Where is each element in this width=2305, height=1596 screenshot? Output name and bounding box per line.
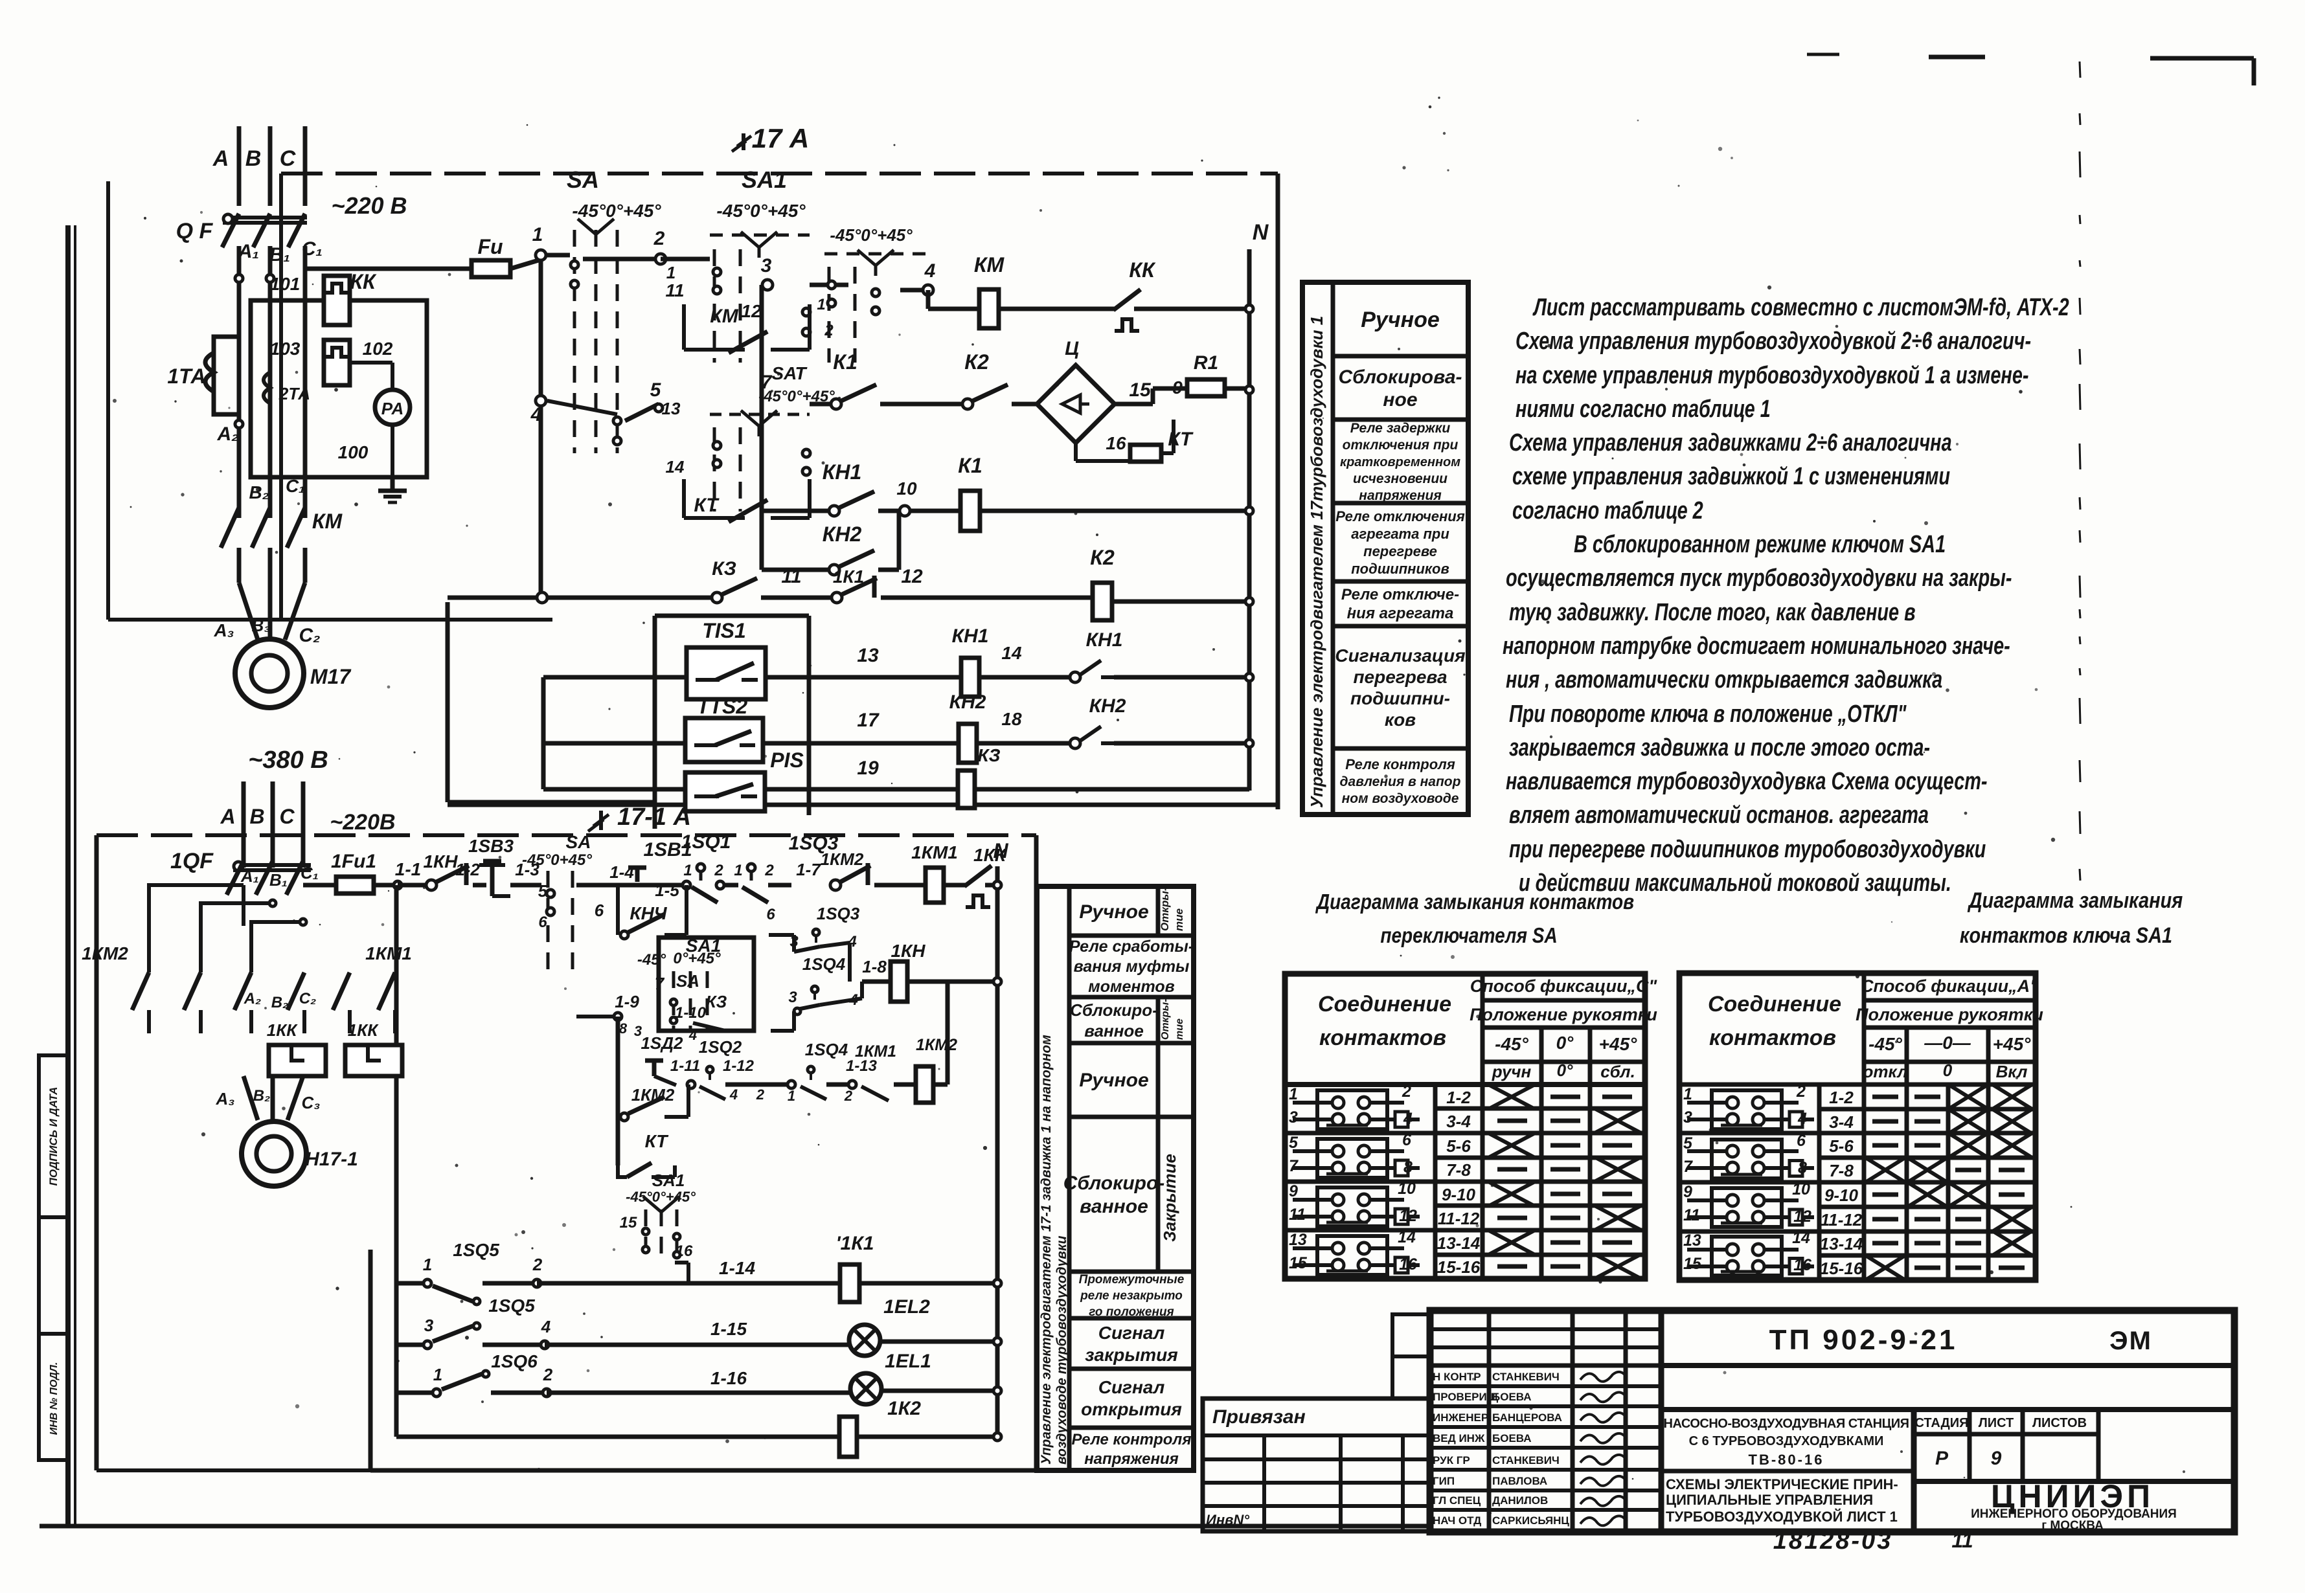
- svg-text:100: 100: [338, 442, 369, 462]
- svg-text:1К2: 1К2: [887, 1398, 921, 1419]
- svg-text:Способ фиксации„С": Способ фиксации„С": [1470, 976, 1658, 996]
- svg-text:17: 17: [857, 710, 880, 731]
- svg-text:17-1 А: 17-1 А: [617, 804, 691, 831]
- svg-text:ПОДПИСЬ И ДАТА: ПОДПИСЬ И ДАТА: [47, 1087, 60, 1186]
- svg-text:SА: SА: [566, 832, 591, 852]
- svg-text:Реле задержки: Реле задержки: [1350, 421, 1451, 436]
- svg-text:Привязан: Привязан: [1212, 1406, 1306, 1428]
- svg-text:-45°0°+45°: -45°0°+45°: [716, 201, 806, 221]
- svg-text:1КМ1: 1КМ1: [855, 1042, 896, 1061]
- svg-text:1: 1: [817, 296, 825, 313]
- svg-text:КК: КК: [350, 270, 377, 293]
- svg-text:1SQ5: 1SQ5: [488, 1296, 535, 1316]
- svg-text:Q F: Q F: [176, 219, 214, 243]
- svg-text:4: 4: [729, 1086, 738, 1103]
- svg-text:6: 6: [538, 914, 547, 931]
- svg-text:8: 8: [619, 1020, 628, 1037]
- svg-text:СХЕМЫ ЭЛЕКТРИЧЕСКИЕ ПРИН-: СХЕМЫ ЭЛЕКТРИЧЕСКИЕ ПРИН-: [1666, 1476, 1898, 1492]
- svg-text:переключателя SА: переключателя SА: [1380, 924, 1557, 948]
- svg-text:1Fu1: 1Fu1: [331, 851, 376, 872]
- svg-text:Положение рукоятки: Положение рукоятки: [1856, 1005, 2043, 1024]
- svg-text:3: 3: [424, 1316, 434, 1335]
- svg-text:1QF: 1QF: [170, 849, 214, 873]
- svg-text:1SВ3: 1SВ3: [468, 836, 514, 856]
- svg-text:0°+45°: 0°+45°: [673, 950, 721, 967]
- svg-text:-45°0°+45°: -45°0°+45°: [572, 201, 661, 221]
- svg-text:перегрева: перегрева: [1353, 667, 1447, 687]
- svg-text:С₂: С₂: [299, 625, 320, 646]
- svg-text:ПАВЛОВА: ПАВЛОВА: [1492, 1475, 1547, 1487]
- svg-text:+45°: +45°: [1599, 1034, 1637, 1054]
- svg-text:тую задвижку. После того, к: тую задвижку. После того, как давление в: [1509, 598, 1916, 626]
- svg-text:8: 8: [1798, 1159, 1807, 1177]
- svg-text:ЛИСТОВ: ЛИСТОВ: [2032, 1416, 2087, 1430]
- svg-text:ручн: ручн: [1492, 1062, 1532, 1081]
- svg-text:1: 1: [1289, 1085, 1298, 1103]
- svg-text:навливается турбовоздуходувка: навливается турбовоздуходувка Схема осущ…: [1506, 767, 1988, 795]
- svg-text:ванное: ванное: [1080, 1196, 1148, 1217]
- svg-text:подшипников: подшипников: [1351, 561, 1449, 577]
- svg-text:ниями согласно таблице 1: ниями согласно таблице 1: [1516, 395, 1771, 423]
- svg-text:Управление электродвигателем: Управление электродвигателем 17-1 задвиж…: [1039, 1035, 1054, 1465]
- svg-text:подшипни-: подшипни-: [1350, 688, 1450, 708]
- svg-text:16: 16: [1106, 433, 1126, 453]
- svg-text:3-4: 3-4: [1829, 1112, 1854, 1132]
- svg-text:Ручное: Ручное: [1079, 901, 1148, 923]
- svg-text:напорном патрубке достигает: напорном патрубке достигает номинального…: [1503, 632, 2010, 660]
- svg-text:5: 5: [1289, 1134, 1299, 1152]
- svg-text:А₂: А₂: [244, 990, 261, 1007]
- svg-text:Схема управления турбовоздуход: Схема управления турбовоздуходувкой 2÷6 …: [1516, 327, 2031, 355]
- svg-text:КН2: КН2: [823, 523, 862, 546]
- svg-text:САРКИСЬЯНЦ: САРКИСЬЯНЦ: [1492, 1514, 1569, 1527]
- svg-text:3-4: 3-4: [1446, 1112, 1471, 1131]
- svg-text:КЗ: КЗ: [706, 992, 727, 1011]
- svg-text:18128-03: 18128-03: [1773, 1527, 1893, 1555]
- svg-text:С₂: С₂: [299, 990, 316, 1007]
- svg-text:исчезновении: исчезновении: [1353, 471, 1448, 486]
- svg-text:РУК ГР: РУК ГР: [1433, 1454, 1470, 1467]
- svg-text:~380 В: ~380 В: [248, 747, 328, 774]
- svg-text:12: 12: [1399, 1207, 1417, 1225]
- svg-text:на схеме управления турбовозду: на схеме управления турбовоздуходувкой 1…: [1516, 361, 2029, 389]
- svg-text:КМ: КМ: [710, 306, 738, 327]
- svg-text:Положение рукоятки: Положение рукоятки: [1470, 1005, 1657, 1024]
- svg-text:1-7: 1-7: [796, 860, 821, 879]
- svg-text:тие: тие: [1173, 908, 1185, 931]
- svg-text:СТАДИЯ: СТАДИЯ: [1914, 1416, 1968, 1430]
- svg-text:Сблокиро-: Сблокиро-: [1070, 1000, 1158, 1020]
- svg-text:13-14: 13-14: [1437, 1233, 1481, 1253]
- svg-text:СТАНКЕВИЧ: СТАНКЕВИЧ: [1492, 1454, 1560, 1467]
- svg-text:11-12: 11-12: [1821, 1210, 1863, 1230]
- svg-text:КН2: КН2: [949, 691, 986, 713]
- svg-text:5: 5: [650, 379, 662, 401]
- svg-text:реле незакрыто: реле незакрыто: [1080, 1289, 1183, 1303]
- svg-text:9-10: 9-10: [1442, 1185, 1476, 1204]
- svg-text:4: 4: [924, 260, 936, 282]
- svg-text:В₂: В₂: [249, 482, 269, 502]
- svg-text:9: 9: [1683, 1183, 1692, 1201]
- svg-text:ТП 902-9-21: ТП 902-9-21: [1769, 1324, 1958, 1356]
- svg-text:кратковременном: кратковременном: [1340, 455, 1460, 469]
- svg-text:-45°: -45°: [637, 951, 666, 969]
- svg-text:В сблокированном режиме клю: В сблокированном режиме ключом SА1: [1574, 530, 1946, 558]
- svg-text:9: 9: [1991, 1448, 2002, 1469]
- svg-text:SА: SА: [676, 971, 699, 991]
- svg-text:1КК: 1КК: [973, 845, 1007, 865]
- svg-text:1: 1: [683, 862, 692, 879]
- svg-text:К1: К1: [833, 350, 857, 374]
- svg-text:Откры-: Откры-: [1159, 887, 1171, 931]
- svg-text:Ц: Ц: [1065, 338, 1079, 359]
- svg-text:Реле отключения: Реле отключения: [1335, 508, 1464, 524]
- svg-text:Реле контроля: Реле контроля: [1071, 1431, 1191, 1448]
- svg-text:г МОСКВА: г МОСКВА: [2041, 1519, 2104, 1533]
- svg-text:1КМ2: 1КМ2: [916, 1036, 957, 1054]
- svg-text:0°: 0°: [1557, 1061, 1573, 1080]
- svg-text:-45°: -45°: [1495, 1034, 1528, 1054]
- svg-text:РIS: РIS: [770, 748, 804, 772]
- svg-text:Сблокиро-: Сблокиро-: [1063, 1173, 1165, 1194]
- svg-text:7: 7: [1683, 1158, 1693, 1176]
- svg-text:А: А: [220, 805, 235, 828]
- svg-text:Реле сработы-: Реле сработы-: [1069, 938, 1194, 956]
- svg-text:1-1: 1-1: [395, 859, 421, 879]
- svg-text:1КК: 1КК: [348, 1020, 379, 1040]
- svg-text:Управление электродвигателем: Управление электродвигателем 17турбовозд…: [1307, 316, 1326, 808]
- svg-text:2: 2: [543, 1365, 553, 1384]
- svg-text:КМ: КМ: [974, 253, 1005, 276]
- svg-text:сбл.: сбл.: [1600, 1062, 1635, 1081]
- svg-text:Закрытие: Закрытие: [1160, 1154, 1179, 1242]
- svg-text:осуществляется пуск турбовоз: осуществляется пуск турбовоздуходувки на…: [1506, 564, 2012, 592]
- svg-text:КЗ: КЗ: [977, 745, 1000, 765]
- svg-text:Ручное: Ручное: [1361, 308, 1440, 332]
- svg-text:С 6 ТУРБОВОЗДУХОДУВКАМИ: С 6 ТУРБОВОЗДУХОДУВКАМИ: [1689, 1434, 1884, 1448]
- svg-text:SАТ: SАТ: [771, 363, 808, 383]
- svg-text:ЭМ: ЭМ: [2109, 1327, 2152, 1355]
- svg-text:12: 12: [741, 301, 762, 321]
- svg-text:схеме управления задвижкой: схеме управления задвижкой 1 с изменения…: [1512, 462, 1950, 490]
- svg-text:3: 3: [1289, 1108, 1298, 1127]
- svg-text:напряжения: напряжения: [1084, 1450, 1179, 1468]
- svg-text:1: 1: [788, 1088, 795, 1104]
- svg-text:НАЧ ОТД: НАЧ ОТД: [1433, 1514, 1481, 1527]
- svg-text:1SQ3: 1SQ3: [817, 904, 860, 923]
- svg-text:А: А: [212, 146, 229, 171]
- svg-text:6: 6: [1797, 1132, 1806, 1150]
- svg-text:НАСОСНО-ВОЗДУХОДУВНАЯ СТАНЦИЯ: НАСОСНО-ВОЗДУХОДУВНАЯ СТАНЦИЯ: [1664, 1417, 1909, 1431]
- svg-text:4: 4: [688, 1027, 697, 1043]
- svg-text:откл: откл: [1863, 1062, 1908, 1081]
- svg-text:1ТА: 1ТА: [167, 365, 205, 388]
- svg-text:15: 15: [620, 1214, 637, 1231]
- svg-text:7: 7: [1289, 1157, 1299, 1175]
- svg-text:Fu: Fu: [477, 235, 503, 258]
- svg-text:15-16: 15-16: [1820, 1259, 1863, 1278]
- svg-text:РА: РА: [381, 399, 403, 418]
- svg-text:КТ: КТ: [694, 495, 720, 516]
- svg-text:Н КОНТР: Н КОНТР: [1433, 1371, 1481, 1383]
- svg-text:6: 6: [1402, 1131, 1412, 1149]
- svg-text:2: 2: [824, 322, 834, 339]
- svg-text:контактов: контактов: [1319, 1026, 1446, 1050]
- svg-text:14: 14: [1001, 643, 1022, 663]
- svg-text:Соединение: Соединение: [1318, 992, 1451, 1017]
- svg-text:11: 11: [1683, 1206, 1700, 1224]
- svg-text:А₂: А₂: [216, 423, 238, 445]
- svg-text:17 А: 17 А: [752, 123, 810, 153]
- svg-text:закрытия: закрытия: [1085, 1345, 1178, 1365]
- svg-text:-45°0°+45°: -45°0°+45°: [830, 225, 913, 245]
- svg-text:9: 9: [1172, 377, 1183, 398]
- svg-text:1-2: 1-2: [1446, 1088, 1471, 1107]
- svg-text:1К1: 1К1: [833, 567, 864, 587]
- svg-text:16: 16: [1793, 1256, 1812, 1274]
- svg-text:КН1: КН1: [823, 460, 862, 484]
- svg-text:2: 2: [653, 228, 665, 249]
- svg-text:ТТS2: ТТS2: [697, 695, 747, 718]
- svg-text:1SД2: 1SД2: [641, 1033, 683, 1053]
- svg-text:КН2: КН2: [1089, 695, 1126, 717]
- svg-text:К1: К1: [958, 454, 982, 477]
- svg-text:8: 8: [1403, 1158, 1413, 1176]
- svg-text:ванное: ванное: [1084, 1021, 1144, 1040]
- svg-text:1-12: 1-12: [723, 1057, 755, 1075]
- svg-text:7-8: 7-8: [1829, 1161, 1854, 1180]
- svg-text:Реле контроля: Реле контроля: [1345, 756, 1455, 772]
- svg-text:закрывается задвижка и посл: закрывается задвижка и после этого оста-: [1509, 734, 1930, 761]
- svg-text:Ручное: Ручное: [1079, 1070, 1148, 1091]
- svg-text:14: 14: [1398, 1228, 1416, 1246]
- svg-text:3: 3: [761, 255, 772, 276]
- svg-text:1SQ2: 1SQ2: [699, 1037, 742, 1057]
- svg-text:КН1: КН1: [1086, 629, 1123, 651]
- svg-text:В: В: [245, 146, 262, 171]
- svg-text:К2: К2: [1090, 546, 1115, 569]
- svg-text:6: 6: [595, 901, 604, 920]
- svg-text:101: 101: [270, 274, 301, 294]
- svg-text:Сигнал: Сигнал: [1098, 1377, 1165, 1397]
- svg-text:перегреве: перегреве: [1363, 543, 1437, 559]
- svg-text:ТIS1: ТIS1: [702, 619, 746, 642]
- svg-text:В: В: [249, 805, 264, 828]
- svg-text:вляет автоматический остано: вляет автоматический останов. агрегата: [1509, 801, 1929, 829]
- svg-text:1SQ5: 1SQ5: [453, 1240, 499, 1260]
- svg-text:SА1: SА1: [652, 1171, 685, 1190]
- svg-text:А₁: А₁: [240, 866, 259, 886]
- svg-text:15: 15: [1683, 1255, 1702, 1273]
- svg-text:103: 103: [270, 339, 301, 359]
- svg-text:9: 9: [1289, 1182, 1298, 1200]
- svg-text:1ЕL1: 1ЕL1: [885, 1351, 931, 1372]
- svg-text:С₁: С₁: [286, 476, 305, 496]
- svg-text:1SQ4: 1SQ4: [805, 1040, 848, 1059]
- svg-text:ДАНИЛОВ: ДАНИЛОВ: [1492, 1494, 1548, 1507]
- svg-text:5: 5: [538, 881, 548, 901]
- svg-text:12: 12: [1793, 1208, 1811, 1226]
- svg-text:1SQ6: 1SQ6: [491, 1351, 538, 1371]
- svg-text:1SQ1: 1SQ1: [681, 831, 731, 853]
- svg-text:Сигнал: Сигнал: [1098, 1323, 1165, 1343]
- svg-text:БОЕВА: БОЕВА: [1492, 1391, 1532, 1403]
- svg-text:2: 2: [532, 1255, 543, 1274]
- svg-text:при перегреве подшипников т: при перегреве подшипников туробовоздуход…: [1509, 835, 1986, 863]
- svg-text:13: 13: [857, 645, 879, 666]
- svg-text:Способ фикации„А": Способ фикации„А": [1861, 976, 2039, 996]
- svg-text:ном воздуховоде: ном воздуховоде: [1342, 791, 1459, 806]
- svg-text:2: 2: [764, 862, 774, 879]
- svg-text:вания муфты: вания муфты: [1074, 958, 1190, 976]
- svg-text:К2: К2: [964, 350, 989, 374]
- svg-text:1: 1: [433, 1365, 442, 1384]
- svg-text:отключения при: отключения при: [1343, 438, 1459, 453]
- svg-text:ИнвN°: ИнвN°: [1206, 1512, 1249, 1528]
- svg-text:'1К1: '1К1: [836, 1233, 874, 1254]
- svg-text:7: 7: [655, 974, 665, 993]
- svg-text:КЗ: КЗ: [712, 558, 736, 579]
- svg-text:Сигнализация: Сигнализация: [1335, 646, 1465, 666]
- svg-text:11: 11: [1951, 1529, 1973, 1552]
- svg-text:КТ: КТ: [645, 1131, 670, 1151]
- svg-text:2: 2: [1402, 1083, 1411, 1101]
- svg-text:Р: Р: [1935, 1448, 1949, 1469]
- svg-text:ПРОВЕРИЩ: ПРОВЕРИЩ: [1433, 1391, 1499, 1403]
- svg-text:контактов: контактов: [1709, 1026, 1836, 1050]
- svg-text:Промежуточные: Промежуточные: [1079, 1273, 1185, 1287]
- svg-text:М17: М17: [310, 665, 352, 688]
- svg-text:Сблокирова-: Сблокирова-: [1338, 366, 1462, 388]
- svg-text:А₃: А₃: [216, 1089, 235, 1108]
- svg-text:5: 5: [1683, 1134, 1693, 1152]
- svg-text:11: 11: [1289, 1206, 1306, 1224]
- svg-text:—0—: —0—: [1924, 1033, 1971, 1053]
- svg-text:SА: SА: [567, 166, 599, 193]
- svg-text:1: 1: [666, 263, 676, 282]
- svg-text:ТВ-80-16: ТВ-80-16: [1749, 1452, 1824, 1468]
- svg-text:12: 12: [901, 566, 923, 587]
- svg-text:15: 15: [1129, 379, 1152, 401]
- svg-text:14: 14: [1792, 1229, 1810, 1247]
- svg-text:ЛИСТ: ЛИСТ: [1979, 1416, 2014, 1430]
- svg-text:+45°: +45°: [1993, 1034, 2031, 1054]
- svg-text:4: 4: [1403, 1110, 1413, 1128]
- svg-text:10: 10: [1398, 1180, 1416, 1198]
- svg-text:1-2: 1-2: [455, 860, 480, 879]
- svg-text:1: 1: [532, 224, 543, 245]
- svg-text:ТУРБОВОЗДУХОДУВКОЙ ЛИСТ 1: ТУРБОВОЗДУХОДУВКОЙ ЛИСТ 1: [1666, 1509, 1898, 1525]
- svg-text:ИНВ № ПОДЛ.: ИНВ № ПОДЛ.: [49, 1362, 60, 1435]
- svg-text:4: 4: [530, 404, 542, 425]
- svg-text:С: С: [280, 146, 296, 171]
- svg-text:Реле отключе-: Реле отключе-: [1341, 586, 1459, 603]
- svg-text:13-14: 13-14: [1820, 1234, 1863, 1253]
- svg-text:4: 4: [541, 1317, 551, 1336]
- svg-text:102: 102: [363, 339, 393, 359]
- svg-text:13: 13: [1683, 1231, 1701, 1250]
- svg-text:ЦИПИАЛЬНЫЕ УПРАВЛЕНИЯ: ЦИПИАЛЬНЫЕ УПРАВЛЕНИЯ: [1666, 1492, 1873, 1508]
- svg-text:1-11: 1-11: [670, 1057, 700, 1075]
- svg-text:1-10: 1-10: [675, 1004, 707, 1022]
- svg-text:2: 2: [756, 1086, 765, 1103]
- svg-text:18: 18: [1001, 709, 1022, 729]
- svg-text:R1: R1: [1194, 352, 1218, 374]
- svg-text:1-14: 1-14: [719, 1258, 755, 1278]
- svg-text:моментов: моментов: [1088, 978, 1175, 996]
- svg-text:7-8: 7-8: [1446, 1160, 1471, 1180]
- svg-text:11: 11: [781, 566, 801, 587]
- svg-text:11: 11: [665, 280, 684, 300]
- svg-text:9-10: 9-10: [1824, 1186, 1859, 1205]
- svg-text:согласно таблице 2: согласно таблице 2: [1512, 497, 1703, 524]
- svg-text:1: 1: [734, 862, 742, 879]
- svg-text:1-9: 1-9: [615, 992, 639, 1011]
- svg-text:6: 6: [766, 906, 775, 923]
- svg-text:Диаграмма замыкания: Диаграмма замыкания: [1967, 888, 2183, 913]
- svg-text:тие: тие: [1174, 1018, 1185, 1040]
- svg-text:Схема управления задвижками: Схема управления задвижками 2÷6 аналогич…: [1509, 429, 1952, 456]
- svg-text:0°: 0°: [1556, 1033, 1574, 1053]
- svg-text:ИНЖЕНЕР: ИНЖЕНЕР: [1433, 1411, 1488, 1424]
- svg-text:1: 1: [423, 1255, 432, 1274]
- svg-text:БОЕВА: БОЕВА: [1492, 1432, 1532, 1444]
- svg-text:Соединение: Соединение: [1708, 992, 1841, 1017]
- svg-text:1КМ1: 1КМ1: [365, 943, 412, 963]
- svg-text:КН1: КН1: [952, 625, 989, 647]
- svg-text:4: 4: [1797, 1110, 1807, 1128]
- svg-text:N: N: [1253, 220, 1269, 245]
- svg-text:контактов ключа SА1: контактов ключа SА1: [1960, 923, 2172, 948]
- svg-text:SА1: SА1: [742, 166, 787, 193]
- svg-text:В₂: В₂: [253, 1087, 270, 1105]
- svg-text:С₁: С₁: [301, 863, 319, 882]
- svg-text:1КМ2: 1КМ2: [82, 943, 128, 963]
- svg-text:Лист рассматривать совместно с: Лист рассматривать совместно с листомЭМ-…: [1532, 293, 2069, 321]
- svg-text:5-6: 5-6: [1446, 1136, 1471, 1156]
- svg-text:1SQ4: 1SQ4: [802, 954, 846, 974]
- svg-text:~220В: ~220В: [330, 810, 395, 835]
- svg-text:13: 13: [662, 399, 681, 418]
- svg-text:-45°0+45°: -45°0+45°: [522, 851, 592, 869]
- svg-text:В₂: В₂: [271, 994, 288, 1011]
- svg-text:1КМ1: 1КМ1: [911, 842, 958, 862]
- svg-text:КК: КК: [1129, 258, 1156, 282]
- svg-text:2: 2: [844, 1088, 853, 1104]
- svg-text:1КН: 1КН: [891, 941, 925, 961]
- svg-text:1-8: 1-8: [862, 957, 887, 976]
- svg-text:3: 3: [1683, 1108, 1692, 1127]
- svg-text:2: 2: [714, 862, 723, 879]
- svg-text:10: 10: [1792, 1180, 1810, 1198]
- svg-text:В₁: В₁: [269, 870, 288, 890]
- svg-text:16: 16: [1399, 1255, 1418, 1274]
- svg-text:7: 7: [761, 372, 773, 393]
- svg-text:ГЛ СПЕЦ: ГЛ СПЕЦ: [1433, 1494, 1481, 1507]
- svg-text:С₃: С₃: [302, 1093, 321, 1112]
- svg-text:1-15: 1-15: [710, 1319, 747, 1339]
- svg-text:0: 0: [1943, 1061, 1953, 1080]
- svg-text:10: 10: [896, 478, 917, 499]
- svg-text:1-2: 1-2: [1829, 1088, 1854, 1107]
- svg-text:1КН: 1КН: [423, 851, 458, 871]
- svg-text:Диаграмма замыкания контактов: Диаграмма замыкания контактов: [1315, 890, 1634, 914]
- svg-text:ГИП: ГИП: [1433, 1475, 1455, 1487]
- svg-text:11-12: 11-12: [1438, 1209, 1480, 1228]
- svg-text:СТАНКЕВИЧ: СТАНКЕВИЧ: [1492, 1371, 1560, 1383]
- svg-text:5-6: 5-6: [1829, 1136, 1854, 1156]
- svg-text:14: 14: [666, 457, 685, 477]
